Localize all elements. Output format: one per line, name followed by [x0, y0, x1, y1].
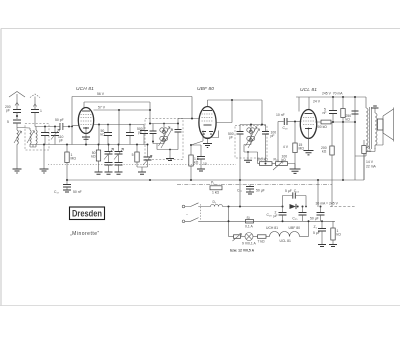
- coil L3 winding b: [27, 127, 37, 148]
- wire 245V rail: [296, 96, 366, 98]
- heater UBF80: [289, 226, 309, 237]
- scan edge artifact page border: [1, 28, 400, 30]
- capacitor C26 50uF: [310, 206, 325, 222]
- svg-text:pF: pF: [59, 139, 63, 143]
- resistor anode 200k: [316, 120, 331, 129]
- capacitor trimmer stack b: [114, 145, 124, 172]
- switch pole a: [185, 203, 211, 207]
- wire anode line: [315, 121, 355, 123]
- capacitor Z1: [313, 220, 326, 246]
- wire IF1 ground stub: [169, 150, 171, 159]
- svg-text:UCH 81: UCH 81: [76, 86, 94, 92]
- capacitor bypass 5uF C24: [283, 189, 307, 207]
- svg-text:4 V: 4 V: [283, 145, 289, 149]
- potentiometer volume 100k: [273, 155, 295, 171]
- tube UCL81 envelope: [300, 110, 316, 139]
- node: [177, 123, 179, 125]
- chassis flag secondary top: [374, 109, 376, 114]
- wire antenna input to grid: [35, 126, 73, 128]
- node: [342, 121, 344, 123]
- capacitor C25 50uF: [292, 206, 306, 222]
- rheostat lamp series: [229, 233, 246, 241]
- tube UCH81 envelope: [78, 108, 93, 134]
- svg-text:C₁₉: C₁₉: [283, 126, 289, 130]
- potentiometer P1 hum: [210, 181, 222, 195]
- coil L2 winding a: [17, 128, 31, 148]
- node: [169, 149, 171, 151]
- coil IF1 secondary: [160, 133, 168, 142]
- wire pot wiper up: [277, 122, 279, 162]
- svg-text:Dresden: Dresden: [72, 209, 102, 220]
- svg-text:UCL 81: UCL 81: [280, 239, 291, 243]
- resistor osc anode: [132, 145, 140, 168]
- svg-text:0,1 A: 0,1 A: [245, 225, 253, 229]
- svg-text:nF: nF: [323, 111, 327, 115]
- node: [118, 144, 120, 146]
- wire AVC line dashed: [48, 164, 236, 166]
- node: [354, 121, 356, 123]
- node: [66, 179, 68, 181]
- capacitor IF1 primary 500pF: [137, 124, 157, 142]
- capacitor 200pF: [5, 104, 21, 119]
- wire IF2 top: [240, 124, 266, 126]
- wire rail drop left: [71, 97, 73, 145]
- svg-text:MΩ: MΩ: [71, 157, 77, 161]
- tube UCH81 internals: [81, 111, 92, 129]
- antenna A1: [9, 92, 25, 106]
- svg-text:kΩ: kΩ: [367, 149, 372, 153]
- svg-text:50 µF: 50 µF: [310, 217, 319, 221]
- heater UCL81: [280, 232, 291, 243]
- tube UCL81 internals: [303, 114, 314, 130]
- switch pole b: [185, 218, 246, 222]
- capacitor 5nF rail: [323, 96, 338, 122]
- svg-text:10 nF: 10 nF: [276, 113, 285, 117]
- wire 57V plate line: [94, 109, 151, 111]
- wire plate rail drop to IF1: [149, 102, 151, 124]
- ground: [105, 172, 113, 174]
- node: [250, 124, 252, 126]
- capacitor trimmer stack a: [104, 145, 114, 172]
- ground: [115, 172, 123, 174]
- capacitor osc pad c: [143, 145, 152, 168]
- wire IF1 top: [150, 123, 178, 125]
- wire osc drop from 57V: [118, 110, 120, 145]
- transformer IF1 dashed box: [145, 119, 183, 160]
- node: [149, 123, 151, 125]
- node: [317, 179, 319, 181]
- ground grid resistor: [290, 169, 301, 173]
- node row1 lamp drop: [228, 206, 230, 208]
- svg-text:5 µF C₂₄: 5 µF C₂₄: [285, 189, 300, 193]
- svg-text:14 V: 14 V: [366, 160, 374, 164]
- ground: [95, 172, 103, 174]
- capacitor tuning fixed: [41, 127, 49, 145]
- wire coil bottom to ground: [33, 145, 44, 169]
- svg-text:50 pF: 50 pF: [55, 118, 64, 122]
- speaker: [375, 108, 394, 150]
- wire B+ drop: [317, 180, 319, 207]
- node: [190, 144, 192, 146]
- wire triode plate right: [94, 124, 144, 126]
- wire diode loop under tube: [203, 131, 219, 138]
- wire B+ dashed out: [330, 206, 355, 208]
- wire IF2 secondary loop: [244, 141, 258, 164]
- capacitor tone on B+: [352, 111, 359, 114]
- node: [163, 123, 165, 125]
- wire osc feedback drop: [98, 125, 100, 145]
- wire anode top: [208, 100, 263, 106]
- ground: [138, 172, 146, 174]
- node: [98, 124, 100, 126]
- svg-text:22 mA: 22 mA: [366, 165, 377, 169]
- resistor series lamp: [253, 235, 270, 244]
- node: [149, 109, 151, 111]
- ground IF2: [244, 160, 252, 162]
- wire anode top stem: [308, 97, 310, 110]
- svg-text:kΩ: kΩ: [346, 118, 351, 122]
- resistor grid 15M: [283, 122, 304, 169]
- node: [118, 109, 120, 111]
- ground tuned circuit: [40, 169, 49, 173]
- resistor 150 ohm: [329, 221, 341, 246]
- svg-text:24 V: 24 V: [313, 100, 321, 104]
- svg-text:UCH 81: UCH 81: [266, 226, 278, 230]
- svg-text:10: 10: [203, 162, 207, 166]
- capacitor IF2 primary 500pF: [228, 125, 244, 179]
- inductor mains choke D1: [211, 200, 283, 207]
- node: [68, 126, 70, 128]
- nameplate Dresden box: [70, 207, 105, 220]
- node row1 bus drop: [239, 206, 241, 208]
- coil antenna transformer dashed box: [25, 124, 49, 151]
- wire cathode: [85, 129, 87, 145]
- svg-text:1 kΩ: 1 kΩ: [212, 191, 220, 195]
- capacitor trimmer 110pF: [51, 127, 64, 145]
- node: [43, 144, 45, 146]
- wire primary bottom return: [355, 148, 366, 156]
- svg-text:200 kΩ: 200 kΩ: [316, 125, 327, 129]
- svg-text:UBF 80: UBF 80: [289, 226, 301, 230]
- lamp pilot: [242, 233, 256, 246]
- wire lamp feed vertical: [228, 207, 230, 237]
- svg-text:pF: pF: [271, 134, 275, 138]
- wire anode to IF2: [261, 100, 263, 125]
- svg-text:57 V: 57 V: [98, 106, 106, 110]
- wire grid entry: [72, 125, 79, 127]
- node: [308, 220, 310, 222]
- node: [108, 144, 110, 146]
- node: [85, 144, 87, 146]
- svg-text:C₂₉: C₂₉: [267, 213, 273, 217]
- terminal mains b: [182, 220, 185, 223]
- node: [342, 179, 344, 181]
- wire cathode to ground: [207, 139, 209, 143]
- resistor 1M grid leak: [65, 145, 77, 181]
- coil IF1 primary: [160, 124, 168, 134]
- coil IF2 primary: [247, 125, 255, 134]
- resistor 5k tone secondary: [362, 140, 375, 180]
- node: [44, 126, 46, 128]
- svg-text:245 V 70 mA: 245 V 70 mA: [322, 92, 343, 96]
- tube UBF80 internals: [202, 111, 214, 135]
- core output transformer: [370, 107, 372, 149]
- capacitor coupling 10nF: [276, 113, 301, 130]
- capacitor osc a: [104, 125, 112, 145]
- node grid: [71, 126, 73, 128]
- node: [190, 179, 192, 181]
- antenna A2 dashed: [30, 94, 40, 108]
- node row2 crossing: [228, 220, 230, 222]
- svg-text:pF: pF: [6, 109, 10, 113]
- svg-text:C₂₅: C₂₅: [292, 217, 298, 221]
- chassis dash-dot line: [177, 184, 332, 186]
- node: [305, 206, 307, 208]
- svg-text:~: ~: [186, 213, 188, 217]
- diode rectifier: [290, 204, 299, 209]
- svg-text:1: 1: [40, 109, 42, 113]
- node antenna junction: [16, 115, 18, 117]
- node: [107, 124, 109, 126]
- capacitor C29: [267, 206, 287, 223]
- svg-text:kΩ: kΩ: [322, 150, 327, 154]
- svg-text:pF: pF: [229, 136, 233, 140]
- svg-text:UCL 81: UCL 81: [300, 87, 317, 93]
- svg-text:30 mA = 245 V: 30 mA = 245 V: [316, 202, 339, 206]
- svg-text:„Minorette“: „Minorette“: [70, 231, 100, 237]
- svg-text:MΩ: MΩ: [299, 147, 305, 151]
- node: [66, 144, 68, 146]
- wire plate rail inner: [84, 102, 150, 108]
- node: [239, 179, 241, 181]
- capacitor IF1 secondary: [175, 124, 182, 150]
- wire bus to mains row: [239, 179, 241, 207]
- svg-text:UBF 80: UBF 80: [197, 86, 214, 92]
- wire tuned circuit bottom: [30, 144, 148, 146]
- svg-text:C₁₇: C₁₇: [54, 190, 60, 194]
- svg-text:5: 5: [132, 153, 134, 157]
- wire IF2 ground stub: [247, 152, 249, 160]
- node: [136, 144, 138, 146]
- svg-text:µF: µF: [274, 214, 278, 218]
- resistor detector load 300k: [257, 158, 276, 166]
- ground cathode: [304, 151, 314, 155]
- resistor 200k feedback: [321, 122, 334, 207]
- svg-text:pF: pF: [138, 131, 142, 135]
- node: [98, 144, 100, 146]
- transformer IF2 dashed box: [235, 126, 267, 159]
- wire screen drop: [298, 97, 300, 112]
- capacitor osc tracking: [140, 125, 148, 145]
- ground antenna coil: [13, 169, 22, 173]
- tuning arrows IF1: [159, 127, 173, 148]
- heater UCH81: [266, 226, 280, 237]
- node: [149, 179, 151, 181]
- svg-text:50 µF: 50 µF: [256, 189, 265, 193]
- node: [354, 96, 356, 98]
- capacitor IF2 secondary 100pF: [262, 125, 276, 164]
- svg-text:bzw. 12 V/0,5 A: bzw. 12 V/0,5 A: [230, 249, 255, 253]
- capacitor C27 50uF: [237, 185, 265, 195]
- node: [265, 163, 267, 165]
- wire feedback vertical: [342, 122, 344, 180]
- transformer output primary: [366, 108, 368, 148]
- wire transformer primary top: [365, 97, 367, 108]
- svg-text:kΩ: kΩ: [337, 233, 342, 237]
- wire IF1 secondary loop: [153, 141, 178, 150]
- wire B+ vertical: [354, 97, 356, 180]
- svg-text:5: 5: [7, 120, 9, 124]
- svg-text:R₂₃: R₂₃: [274, 158, 280, 162]
- ground: [197, 169, 205, 171]
- wire IF1 secondary to UBF grid: [178, 119, 192, 124]
- capacitor cathode bypass: [82, 137, 90, 139]
- svg-text:kΩ: kΩ: [194, 161, 199, 165]
- fuse Si 0,1A: [245, 216, 335, 229]
- capacitor 50pF series grid: [55, 118, 64, 130]
- node: [129, 124, 131, 126]
- wire screen feed from rail: [192, 97, 200, 119]
- node: [147, 144, 149, 146]
- capacitor cathode 10nF: [191, 145, 207, 169]
- wire 56V rail: [72, 96, 192, 98]
- svg-text:50 nF: 50 nF: [73, 190, 82, 194]
- svg-text:5 µF: 5 µF: [313, 231, 320, 235]
- wire ground bus: [67, 154, 364, 181]
- coil IF2 secondary: [247, 133, 255, 142]
- node: [54, 126, 56, 128]
- capacitor 1nF: [31, 108, 42, 127]
- node: [261, 124, 263, 126]
- wire heater return up: [308, 221, 310, 236]
- capacitor C2: [7, 120, 21, 129]
- transformer output secondary: [375, 113, 377, 145]
- node: [332, 121, 334, 123]
- ground UBF cathode: [203, 144, 212, 148]
- svg-text:56 V: 56 V: [97, 92, 105, 96]
- svg-text:300 kΩ: 300 kΩ: [257, 158, 268, 162]
- coil L1 primary: [14, 129, 22, 169]
- capacitor C17 50nF: [54, 180, 82, 194]
- terminal mains a: [182, 205, 185, 208]
- wire osc bottom: [137, 167, 148, 172]
- capacitor osc b: [126, 125, 134, 145]
- ground IF1: [166, 159, 174, 161]
- node: [247, 151, 249, 153]
- resistor 250k rail to anode line: [341, 96, 351, 122]
- node: [231, 99, 233, 101]
- svg-text:9 V/0,1 A: 9 V/0,1 A: [242, 242, 256, 246]
- tube UBF80 envelope: [199, 107, 216, 139]
- switch gang link dashed: [200, 204, 202, 219]
- resistor osc grid: [91, 145, 100, 172]
- tuning arrows IF2: [246, 127, 260, 148]
- wire cathode down: [308, 129, 310, 150]
- resistor cathode 1.5k: [189, 138, 203, 181]
- svg-text:7 kΩ: 7 kΩ: [258, 240, 266, 244]
- node: [152, 141, 154, 143]
- svg-text:kΩ: kΩ: [91, 155, 96, 159]
- wire dynode right: [216, 100, 232, 123]
- node: [294, 121, 296, 123]
